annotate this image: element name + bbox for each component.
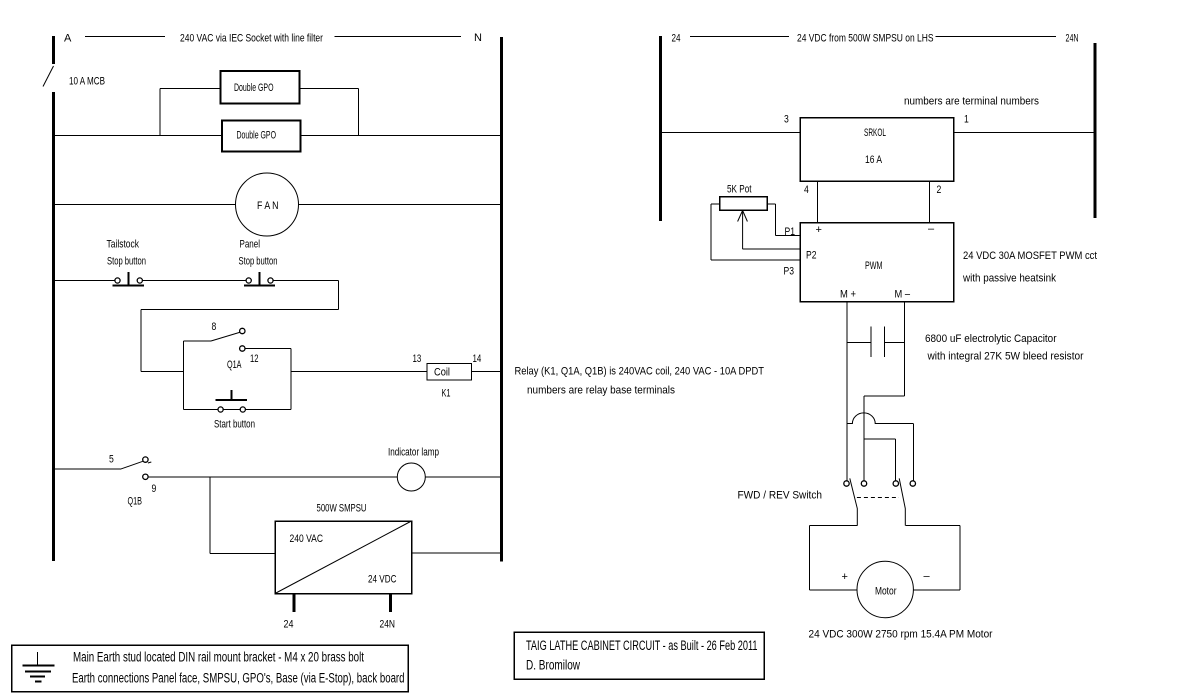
- outlet GPO2 Double GPO box: [222, 121, 301, 152]
- contact Q1A lever: [211, 332, 240, 341]
- switch S2 Panel stop button label: [239, 239, 278, 268]
- wire M- down: [904, 302, 906, 397]
- switch S5 pole 2 lever: [899, 478, 905, 525]
- wire M+ crossover with hop: [847, 413, 914, 424]
- svg-text:N: N: [474, 32, 482, 44]
- potentiometer R1 body box: [720, 197, 768, 211]
- switch S5 terminal circles: [844, 481, 916, 486]
- wire latch to coil: [291, 371, 427, 373]
- fan M1 circle: [236, 173, 299, 236]
- svg-text:Q1B: Q1B: [128, 496, 143, 508]
- svg-text:12: 12: [250, 353, 259, 365]
- svg-text:M –: M –: [895, 289, 911, 301]
- wire M- to switch terminal: [894, 439, 896, 481]
- node 24N output stub: [389, 594, 392, 613]
- switch S1 Tailstock stop button label: [107, 239, 147, 268]
- wire stop rung segment 3: [273, 280, 338, 282]
- svg-text:Relay (K1, Q1A, Q1B) is 240VAC: Relay (K1, Q1A, Q1B) is 240VAC coil, 240…: [515, 366, 765, 378]
- wire M+ down: [846, 302, 848, 482]
- node N supply rail (240 VAC neutral): [500, 37, 503, 562]
- title text: [526, 638, 758, 673]
- contact Q1A terminal 12 circle: [240, 346, 245, 351]
- svg-text:K1: K1: [442, 388, 451, 400]
- motor M2 circle: [857, 561, 913, 617]
- wire GPO rung left: [55, 135, 222, 137]
- svg-text:P3: P3: [784, 266, 795, 278]
- wire pot left drop: [710, 204, 712, 260]
- node 24 supply rail (24 VDC positive): [659, 36, 662, 221]
- svg-text:numbers are relay base termina: numbers are relay base terminals: [527, 385, 675, 397]
- node 24 output stub: [293, 594, 296, 613]
- wire switch pole 2 to motor: [905, 525, 960, 527]
- node A supply rail lower segment: [52, 92, 55, 561]
- switch S5 mechanical link dashed: [857, 497, 899, 499]
- svg-text:Coil: Coil: [434, 367, 450, 379]
- svg-text:Main Earth stud located DIN ra: Main Earth stud located DIN rail mount b…: [73, 650, 364, 665]
- svg-text:D. Bromilow: D. Bromilow: [526, 658, 580, 673]
- wire Q1B rung left: [55, 468, 120, 470]
- svg-text:24: 24: [284, 619, 294, 631]
- wire drop after stop buttons: [338, 281, 340, 310]
- svg-text:M +: M +: [840, 289, 856, 301]
- wire capacitor left lead: [847, 342, 871, 344]
- wire pot right end: [767, 203, 776, 205]
- svg-text:24 VDC 300W 2750 rpm 15.4A PM: 24 VDC 300W 2750 rpm 15.4A PM Motor: [809, 629, 993, 641]
- wire into motor minus: [914, 589, 961, 591]
- wire header left dash: [85, 36, 165, 38]
- svg-text:240 VAC via IEC Socket with li: 240 VAC via IEC Socket with line filter: [180, 33, 323, 45]
- svg-text:Stop button: Stop button: [107, 256, 146, 268]
- wire pot right drop: [775, 204, 777, 236]
- svg-text:Start button: Start button: [214, 419, 255, 431]
- svg-text:Indicator lamp: Indicator lamp: [388, 447, 439, 459]
- wire GPO branch left horizontal: [160, 88, 221, 90]
- wire rail to switch pin 3: [662, 132, 800, 134]
- svg-text:Q1A: Q1A: [227, 359, 242, 371]
- wire M- jog horizontal: [864, 395, 905, 397]
- svg-text:4: 4: [804, 184, 809, 196]
- svg-text:3: 3: [784, 114, 789, 126]
- wire crossover to switch terminal: [912, 424, 914, 481]
- svg-text:500W SMPSU: 500W SMPSU: [317, 503, 367, 515]
- switch S5 pole 1 lever: [850, 478, 858, 525]
- wire fan rung left: [55, 204, 236, 206]
- note earth stud text: [72, 650, 405, 686]
- wire return horizontal: [141, 309, 339, 311]
- wire contact to right edge: [245, 348, 291, 350]
- svg-text:Earth connections Panel face,: Earth connections Panel face, SMPSU, GPO…: [72, 671, 405, 686]
- svg-text:PWM: PWM: [865, 260, 883, 272]
- wire M- jog horizontal 2: [864, 438, 895, 440]
- wire GPO branch left vertical: [159, 89, 161, 136]
- svg-text:P2: P2: [806, 250, 817, 262]
- outlet GPO1 Double GPO box: [221, 71, 300, 104]
- ground earth symbol: [22, 652, 54, 682]
- wire motor left drop: [809, 526, 811, 591]
- wire stop rung segment 1: [55, 280, 115, 282]
- svg-text:Motor: Motor: [875, 586, 897, 598]
- node 24N supply rail (24 VDC return): [1094, 43, 1097, 218]
- wire M- jog vertical: [863, 396, 865, 481]
- svg-text:14: 14: [473, 353, 482, 365]
- svg-text:24N: 24N: [1066, 33, 1079, 45]
- svg-text:Panel: Panel: [240, 239, 261, 251]
- wire into latch branch: [141, 371, 184, 373]
- controller U1 PWM box: [800, 223, 954, 302]
- note relay description: [515, 366, 765, 397]
- wire header right dash: [936, 36, 1057, 38]
- svg-text:SRKOL: SRKOL: [864, 127, 886, 139]
- wire pot left end: [711, 203, 720, 205]
- svg-text:–: –: [928, 223, 935, 235]
- svg-text:F A N: F A N: [257, 200, 279, 212]
- svg-text:FWD / REV Switch: FWD / REV Switch: [738, 490, 823, 502]
- svg-text:6800 uF electrolytic Capacitor: 6800 uF electrolytic Capacitor: [925, 333, 1057, 345]
- lamp DS1 circle: [397, 463, 425, 491]
- wire coil to neutral: [472, 371, 501, 373]
- svg-text:with integral 27K 5W bleed res: with integral 27K 5W bleed resistor: [927, 351, 1084, 363]
- svg-text:9: 9: [152, 483, 157, 495]
- note capacitor description: [925, 333, 1084, 363]
- svg-text:+: +: [842, 571, 848, 583]
- title box: [514, 632, 764, 679]
- switch S3 Start button (NO pushbutton): [216, 390, 247, 412]
- wire lamp to neutral: [425, 476, 500, 478]
- note PWM description: [962, 250, 1097, 285]
- wire Q1B to lamp: [148, 476, 397, 478]
- contact Q1B terminal 5 circle: [143, 457, 148, 462]
- svg-text:240 VAC: 240 VAC: [290, 533, 324, 545]
- potentiometer R1 wiper arrow: [738, 211, 748, 250]
- wire P3: [711, 259, 800, 261]
- wire header right dash: [335, 36, 462, 38]
- relay K1 coil box: [427, 364, 472, 381]
- svg-text:10 A MCB: 10 A MCB: [69, 76, 105, 88]
- svg-text:with passive heatsink: with passive heatsink: [962, 273, 1056, 285]
- svg-text:A: A: [64, 33, 72, 45]
- wire pin 2 to PWM: [929, 181, 931, 223]
- wire pin 4 to PWM: [817, 181, 819, 223]
- wire down to latch branch: [140, 310, 142, 372]
- wire switch pin 1 to rail: [954, 132, 1094, 134]
- svg-text:16 A: 16 A: [865, 154, 883, 166]
- switch S4 SRKOL box: [800, 118, 954, 182]
- wire drop to SMPSU: [209, 477, 211, 554]
- wire capacitor right lead: [885, 342, 905, 344]
- wire stop rung segment 2: [142, 280, 246, 282]
- svg-text:5K Pot: 5K Pot: [727, 184, 752, 196]
- svg-text:Double GPO: Double GPO: [237, 130, 277, 142]
- wire fan rung right: [299, 204, 501, 206]
- svg-text:P1: P1: [785, 226, 796, 238]
- svg-text:Stop button: Stop button: [239, 256, 278, 268]
- power supply PS1 box: [275, 521, 412, 594]
- wire GPO branch right horizontal: [300, 88, 359, 90]
- wire GPO rung right: [301, 135, 501, 137]
- svg-text:24 VDC from 500W SMPSU on LHS: 24 VDC from 500W SMPSU on LHS: [797, 33, 934, 45]
- svg-text:24 VDC: 24 VDC: [368, 574, 397, 586]
- svg-text:–: –: [924, 571, 931, 583]
- capacitor C1 plates: [871, 327, 885, 358]
- breaker CB1 10 A MCB blade: [43, 66, 54, 87]
- earth note box: [12, 645, 409, 692]
- node A supply rail (240 VAC active) upper segment: [52, 36, 55, 64]
- contact Q1A branch frame: [184, 341, 292, 410]
- svg-text:+: +: [816, 224, 822, 236]
- wire P1: [776, 235, 801, 237]
- contact Q1A terminal 8 circle: [240, 328, 245, 333]
- power supply PS1 diagonal: [275, 521, 412, 594]
- wire header left dash: [690, 36, 789, 38]
- svg-text:Tailstock: Tailstock: [107, 239, 140, 251]
- wire switch pole 1 to motor: [810, 525, 858, 527]
- wire GPO branch right vertical: [358, 89, 360, 136]
- svg-text:8: 8: [212, 321, 217, 333]
- svg-text:TAIG LATHE CABINET CIRCUIT -: TAIG LATHE CABINET CIRCUIT - as Built - …: [526, 638, 758, 653]
- contact Q1B lever: [120, 461, 143, 469]
- svg-text:5: 5: [109, 454, 114, 466]
- wire SMPSU to neutral: [412, 552, 501, 554]
- svg-text:numbers are terminal numbers: numbers are terminal numbers: [904, 96, 1039, 108]
- wire into SMPSU: [210, 553, 275, 555]
- wire motor right drop: [959, 526, 961, 591]
- svg-text:24N: 24N: [380, 619, 396, 631]
- svg-text:13: 13: [413, 353, 422, 365]
- svg-text:24: 24: [672, 33, 681, 45]
- svg-text:Double GPO: Double GPO: [234, 82, 274, 94]
- wire P2: [743, 248, 800, 250]
- contact Q1B terminal 9 circle: [143, 474, 148, 479]
- switch S2 Panel stop button (NC pushbutton): [244, 272, 275, 286]
- contact Q1B lever tick: [148, 462, 151, 463]
- svg-text:2: 2: [937, 184, 942, 196]
- svg-text:1: 1: [964, 114, 969, 126]
- wire into motor plus: [810, 589, 858, 591]
- switch S1 Tailstock stop button (NC pushbutton): [112, 272, 144, 286]
- svg-text:24 VDC 30A MOSFET PWM cct: 24 VDC 30A MOSFET PWM cct: [963, 250, 1097, 262]
